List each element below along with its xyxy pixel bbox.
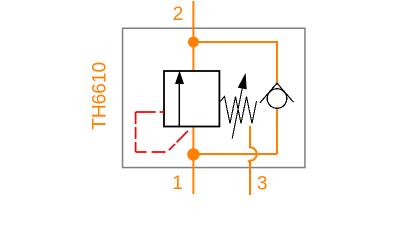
node: junction at port 1 (187, 148, 199, 160)
pilot line lower horizontal segment (136, 151, 166, 153)
relief valve body U1 (164, 71, 219, 127)
check valve ball (267, 89, 287, 109)
pilot line (dashed) from valve to outlet (136, 111, 164, 113)
svg-text:2: 2 (173, 4, 184, 25)
wire: line 1 horizontal run (193, 153, 277, 155)
adjustment arrow across spring (232, 89, 242, 139)
wire: branch from node 2 to check valve (193, 42, 277, 83)
pilot line diagonal segment (169, 131, 188, 150)
wire: port 3 drain line with hop over line 1 (248, 126, 257, 195)
wire: check valve outlet down to line 1 (276, 109, 278, 154)
flow path line inside valve (178, 83, 180, 127)
svg-text:3: 3 (257, 174, 268, 195)
svg-text:TH6610: TH6610 (90, 62, 111, 130)
node: junction on line 2 (188, 37, 199, 48)
wire: port 1 vertical line (192, 127, 194, 194)
svg-text:1: 1 (172, 173, 183, 194)
check valve seat (260, 83, 294, 103)
valve enclosure boundary (123, 28, 305, 167)
flow path arrowhead (175, 71, 184, 84)
wire: port 2 vertical line (192, 1, 194, 71)
pilot line vertical segment (135, 112, 137, 152)
spring (220, 97, 257, 124)
